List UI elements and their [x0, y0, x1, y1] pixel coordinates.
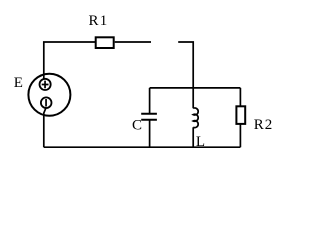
wire inductor branch lower [192, 127, 194, 147]
resistor R1 [96, 37, 114, 48]
wire left lower from source minus terminal to bottom bar [44, 108, 46, 148]
wire bottom bus bar [44, 146, 241, 148]
svg-text:R1: R1 [89, 13, 109, 29]
source positive terminal circle [40, 79, 51, 90]
wire capacitor branch upper [149, 88, 151, 114]
plus sign [42, 81, 49, 89]
svg-text:R2: R2 [254, 117, 274, 133]
inductor L coil [193, 108, 198, 128]
wire from gap down to parallel network (node top) [178, 42, 193, 108]
wire top bus bar [150, 87, 241, 89]
wire capacitor branch lower [149, 120, 151, 147]
svg-text:E: E [14, 75, 23, 91]
svg-text:C: C [132, 118, 142, 134]
resistor R2 [236, 106, 245, 124]
capacitor C plates [141, 114, 157, 120]
wire R2 branch upper [239, 88, 241, 106]
source negative terminal circle [41, 97, 52, 108]
minus terminal bar [45, 99, 47, 107]
voltage source E outer circle [28, 74, 70, 116]
wire R2 branch lower [239, 124, 241, 147]
wire top-left corner from source E up and right to R1 [44, 42, 96, 79]
wire from R1 right lead to open gap [115, 41, 151, 43]
